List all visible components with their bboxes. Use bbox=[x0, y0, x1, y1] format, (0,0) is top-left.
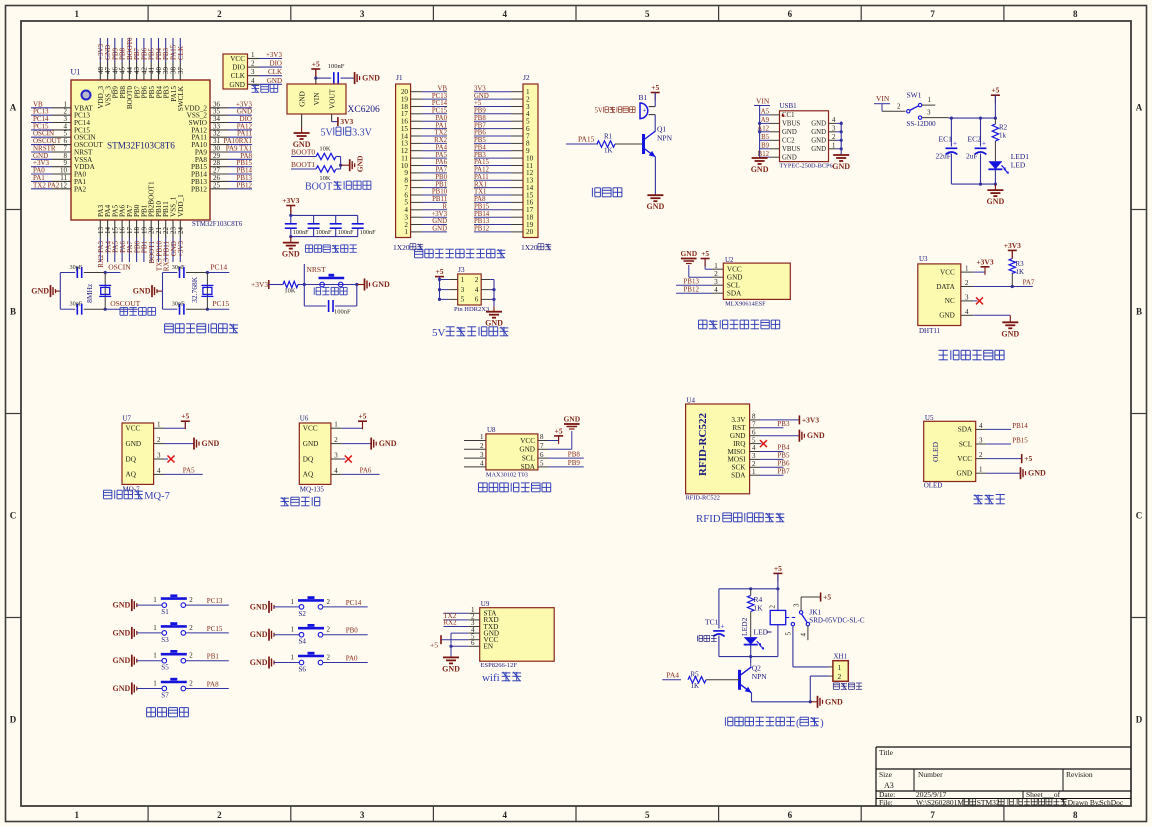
svg-text:LED2: LED2 bbox=[740, 617, 749, 636]
svg-text:100nF: 100nF bbox=[328, 63, 345, 70]
svg-text:1: 1 bbox=[153, 652, 157, 660]
svg-text:+3V3: +3V3 bbox=[266, 51, 283, 59]
svg-text:30pF: 30pF bbox=[172, 301, 185, 308]
svg-text:32.768K: 32.768K bbox=[190, 276, 199, 303]
svg-text:2: 2 bbox=[714, 270, 718, 278]
svg-text:2: 2 bbox=[327, 598, 331, 606]
svg-text:+: + bbox=[643, 107, 647, 115]
svg-text:Revision: Revision bbox=[1066, 770, 1093, 779]
svg-text:+5: +5 bbox=[701, 249, 709, 258]
svg-text:8MHz: 8MHz bbox=[85, 283, 94, 303]
svg-text:DQ: DQ bbox=[126, 455, 137, 463]
svg-text:GND: GND bbox=[811, 146, 826, 153]
svg-text:PB14: PB14 bbox=[1012, 422, 1028, 430]
svg-text:3V3: 3V3 bbox=[474, 85, 486, 92]
svg-text:PB1: PB1 bbox=[435, 181, 447, 188]
svg-text:PB8: PB8 bbox=[474, 115, 486, 122]
svg-text:STM32: STM32 bbox=[977, 798, 1000, 807]
svg-text:NRST: NRST bbox=[307, 265, 327, 274]
svg-text:B12: B12 bbox=[758, 151, 770, 158]
svg-text:RX2: RX2 bbox=[443, 619, 457, 627]
svg-text:GND: GND bbox=[647, 202, 665, 211]
svg-text:PB6: PB6 bbox=[777, 460, 790, 468]
svg-text:U5: U5 bbox=[925, 414, 934, 422]
svg-text:SRD-05VDC-SL-C: SRD-05VDC-SL-C bbox=[809, 617, 865, 625]
svg-text:100nF: 100nF bbox=[316, 229, 332, 236]
svg-text:EC2: EC2 bbox=[968, 135, 982, 144]
svg-text:SDA: SDA bbox=[521, 463, 536, 471]
svg-text:1: 1 bbox=[461, 276, 465, 284]
svg-text:2: 2 bbox=[838, 672, 842, 681]
svg-text:2: 2 bbox=[217, 9, 222, 19]
svg-text:25: 25 bbox=[213, 181, 221, 189]
svg-text:BOOT0: BOOT0 bbox=[291, 148, 315, 157]
svg-text:VBUS: VBUS bbox=[782, 146, 800, 153]
svg-text:GND: GND bbox=[811, 121, 826, 128]
svg-text:VCC: VCC bbox=[727, 266, 742, 274]
svg-text:RFID: RFID bbox=[696, 513, 721, 525]
svg-text:2: 2 bbox=[769, 605, 777, 609]
svg-text:MLX90614ESF: MLX90614ESF bbox=[725, 301, 766, 308]
svg-text:PB12: PB12 bbox=[236, 181, 252, 189]
svg-text:8: 8 bbox=[1073, 810, 1078, 820]
svg-text:GND: GND bbox=[519, 446, 535, 454]
svg-text:W:\S2602801M: W:\S2602801M bbox=[916, 798, 964, 807]
svg-text:ESP8266-12F: ESP8266-12F bbox=[481, 662, 518, 669]
svg-text:30pF: 30pF bbox=[70, 301, 83, 308]
svg-text:5: 5 bbox=[785, 632, 793, 636]
svg-text:U8: U8 bbox=[487, 426, 496, 434]
svg-text:U6: U6 bbox=[300, 415, 309, 423]
svg-text:D: D bbox=[1136, 715, 1143, 725]
svg-text:TYPEC-250D-BCP6: TYPEC-250D-BCP6 bbox=[780, 163, 833, 170]
svg-text:3: 3 bbox=[714, 278, 718, 286]
svg-text:PC15: PC15 bbox=[207, 625, 223, 633]
svg-text:2: 2 bbox=[189, 652, 193, 660]
svg-text:1: 1 bbox=[157, 421, 161, 429]
svg-text:B: B bbox=[10, 307, 16, 317]
svg-text:GND: GND bbox=[250, 630, 268, 639]
svg-text:+5: +5 bbox=[430, 641, 438, 650]
svg-text:3: 3 bbox=[979, 437, 983, 445]
svg-text:1: 1 bbox=[153, 624, 157, 632]
svg-text:PB11: PB11 bbox=[432, 196, 447, 203]
svg-text:4: 4 bbox=[251, 77, 255, 85]
svg-text:PB4: PB4 bbox=[474, 144, 486, 151]
svg-text:BOOT1: BOOT1 bbox=[291, 160, 315, 169]
svg-text:OSCOUT: OSCOUT bbox=[110, 299, 140, 308]
svg-text:4: 4 bbox=[832, 117, 836, 124]
svg-text:PB12: PB12 bbox=[683, 286, 699, 294]
svg-text:CLK: CLK bbox=[231, 72, 246, 80]
svg-text:IRQ: IRQ bbox=[733, 440, 746, 448]
svg-text:GND: GND bbox=[229, 81, 245, 89]
svg-text:TC1: TC1 bbox=[705, 618, 719, 627]
svg-text:5V: 5V bbox=[432, 327, 446, 339]
svg-text:2: 2 bbox=[251, 60, 255, 68]
svg-text:1X20: 1X20 bbox=[521, 243, 538, 252]
svg-text:DATA: DATA bbox=[936, 283, 955, 291]
svg-text:MQ-7: MQ-7 bbox=[144, 491, 170, 502]
svg-text:U7: U7 bbox=[123, 415, 132, 423]
svg-text:3: 3 bbox=[157, 452, 161, 460]
svg-text:100nF: 100nF bbox=[334, 309, 351, 316]
svg-text:VBUS: VBUS bbox=[782, 121, 800, 128]
svg-text:2uF: 2uF bbox=[966, 152, 978, 161]
svg-text:STM32F103C8T6: STM32F103C8T6 bbox=[192, 221, 243, 228]
svg-text:CC1: CC1 bbox=[782, 112, 794, 119]
svg-text:1X20: 1X20 bbox=[393, 243, 410, 252]
svg-text:GND: GND bbox=[474, 93, 489, 100]
svg-text:Q1: Q1 bbox=[657, 125, 666, 134]
svg-text:GND: GND bbox=[987, 197, 1005, 206]
svg-text:8: 8 bbox=[540, 433, 544, 441]
svg-text:Drawn By:: Drawn By: bbox=[1068, 798, 1101, 807]
svg-text:PA6: PA6 bbox=[436, 159, 448, 166]
svg-text:VB: VB bbox=[438, 85, 448, 92]
svg-text:GND: GND bbox=[563, 415, 580, 424]
svg-text:MAX30102 T03: MAX30102 T03 bbox=[486, 472, 528, 479]
svg-text:R2: R2 bbox=[999, 124, 1008, 132]
svg-text:4: 4 bbox=[334, 467, 338, 475]
svg-text:DHT11: DHT11 bbox=[919, 327, 941, 335]
svg-text:B5: B5 bbox=[761, 134, 770, 141]
svg-text:GND: GND bbox=[939, 312, 955, 320]
svg-text:100nF: 100nF bbox=[338, 229, 354, 236]
svg-text:J2: J2 bbox=[523, 73, 530, 82]
svg-text:PB14: PB14 bbox=[474, 211, 490, 218]
svg-text:3V3: 3V3 bbox=[340, 117, 353, 126]
svg-text:1: 1 bbox=[334, 421, 338, 429]
svg-text:AQ: AQ bbox=[126, 471, 137, 479]
svg-text:PB4: PB4 bbox=[777, 444, 790, 452]
svg-text:OLED: OLED bbox=[931, 441, 940, 462]
svg-text:PA7: PA7 bbox=[1023, 279, 1035, 287]
svg-text:SCL: SCL bbox=[959, 440, 972, 448]
svg-text:1K: 1K bbox=[604, 147, 613, 155]
svg-text:+5: +5 bbox=[991, 86, 999, 95]
svg-text:GND: GND bbox=[356, 155, 365, 172]
svg-text:1: 1 bbox=[832, 143, 835, 150]
svg-text:RFID-RC522: RFID-RC522 bbox=[686, 495, 720, 502]
svg-text:2: 2 bbox=[752, 460, 756, 468]
svg-text:1: 1 bbox=[291, 598, 295, 606]
svg-text:GND: GND bbox=[202, 439, 220, 448]
svg-text:GND: GND bbox=[811, 129, 826, 136]
svg-text:5: 5 bbox=[645, 9, 650, 19]
svg-text:2: 2 bbox=[965, 279, 969, 287]
svg-text:+3V3: +3V3 bbox=[177, 241, 185, 258]
svg-text:PC13: PC13 bbox=[207, 597, 223, 605]
svg-text:EN: EN bbox=[484, 643, 494, 651]
svg-text:USB1: USB1 bbox=[780, 102, 798, 110]
svg-text:TX1: TX1 bbox=[474, 189, 486, 196]
svg-text:EC1: EC1 bbox=[939, 135, 953, 144]
svg-text:A9: A9 bbox=[761, 117, 770, 124]
svg-text:10K: 10K bbox=[284, 288, 296, 295]
svg-text:Title: Title bbox=[879, 748, 894, 757]
svg-text:S5: S5 bbox=[161, 664, 169, 672]
svg-text:PA15: PA15 bbox=[474, 159, 489, 166]
svg-text:File:: File: bbox=[879, 798, 893, 807]
svg-text:PB10: PB10 bbox=[432, 189, 448, 196]
svg-text:6: 6 bbox=[475, 296, 479, 304]
svg-text:GND: GND bbox=[113, 684, 131, 693]
svg-text:2: 2 bbox=[189, 624, 193, 632]
svg-text:PC15: PC15 bbox=[212, 299, 229, 308]
svg-text:7: 7 bbox=[930, 9, 935, 19]
svg-text:8: 8 bbox=[752, 413, 756, 421]
svg-text:30pF: 30pF bbox=[172, 264, 185, 271]
svg-text:.SchDoc: .SchDoc bbox=[1098, 798, 1124, 807]
svg-text:PA0: PA0 bbox=[346, 655, 358, 663]
svg-text:+3V3: +3V3 bbox=[976, 257, 993, 266]
svg-text:GND: GND bbox=[751, 165, 769, 174]
svg-text:GND: GND bbox=[250, 602, 268, 611]
svg-text:4: 4 bbox=[475, 286, 479, 294]
svg-text:3: 3 bbox=[251, 68, 255, 76]
svg-text:+5: +5 bbox=[474, 100, 482, 107]
svg-text:PA5: PA5 bbox=[183, 466, 195, 474]
svg-text:GND: GND bbox=[362, 74, 380, 83]
svg-text:1: 1 bbox=[291, 626, 295, 634]
svg-text:7: 7 bbox=[752, 421, 756, 429]
svg-text:B9: B9 bbox=[761, 143, 770, 150]
svg-text:PA8: PA8 bbox=[474, 196, 486, 203]
svg-text:OLED: OLED bbox=[924, 482, 943, 490]
svg-text:6: 6 bbox=[788, 9, 793, 19]
svg-text:VIN: VIN bbox=[876, 94, 890, 103]
svg-text:4: 4 bbox=[800, 633, 808, 637]
svg-text:PB1: PB1 bbox=[207, 653, 220, 661]
svg-text:PB15: PB15 bbox=[474, 204, 490, 211]
svg-text:PB8: PB8 bbox=[568, 450, 581, 458]
svg-text:D: D bbox=[10, 715, 17, 725]
svg-text:3.3V: 3.3V bbox=[731, 416, 746, 424]
svg-text:TX2 PA2: TX2 PA2 bbox=[33, 181, 60, 189]
svg-text:GND: GND bbox=[680, 249, 697, 258]
svg-text:2: 2 bbox=[832, 134, 836, 141]
svg-text:GND: GND bbox=[250, 658, 268, 667]
svg-text:1: 1 bbox=[153, 680, 157, 688]
svg-text:10K: 10K bbox=[319, 146, 331, 153]
svg-text:VCC: VCC bbox=[520, 437, 535, 445]
svg-text:B1: B1 bbox=[639, 93, 648, 102]
svg-text:GND: GND bbox=[31, 287, 49, 296]
svg-text:6: 6 bbox=[540, 451, 544, 459]
svg-text:1: 1 bbox=[752, 468, 756, 476]
svg-text:GND: GND bbox=[303, 440, 319, 448]
svg-text:2: 2 bbox=[327, 654, 331, 662]
svg-text:R3: R3 bbox=[1016, 260, 1025, 268]
svg-text:3: 3 bbox=[927, 109, 931, 117]
svg-text:GND: GND bbox=[379, 439, 397, 448]
svg-text:+3V3: +3V3 bbox=[802, 415, 819, 424]
svg-text:NPN: NPN bbox=[752, 672, 768, 681]
svg-text:4: 4 bbox=[979, 422, 983, 430]
svg-text:S3: S3 bbox=[161, 636, 169, 644]
svg-text:+5: +5 bbox=[1024, 454, 1032, 463]
svg-text:GND: GND bbox=[442, 664, 460, 673]
svg-text:SCL: SCL bbox=[522, 454, 535, 462]
svg-text:1: 1 bbox=[979, 466, 983, 474]
svg-text:2: 2 bbox=[334, 436, 338, 444]
svg-text:30pF: 30pF bbox=[70, 264, 83, 271]
svg-text:RX2: RX2 bbox=[434, 137, 447, 144]
svg-text:+5: +5 bbox=[651, 83, 659, 92]
svg-text:PA11: PA11 bbox=[474, 174, 489, 181]
svg-text:1K: 1K bbox=[691, 682, 700, 690]
svg-text:+5: +5 bbox=[774, 564, 782, 573]
svg-text:SWCLK: SWCLK bbox=[177, 85, 185, 111]
svg-text:BOOT: BOOT bbox=[305, 182, 332, 193]
svg-text:5: 5 bbox=[540, 460, 544, 468]
svg-text:SCL: SCL bbox=[727, 282, 740, 290]
svg-text:6: 6 bbox=[471, 639, 475, 647]
svg-text:wifi: wifi bbox=[482, 672, 500, 684]
svg-text:4: 4 bbox=[714, 286, 718, 294]
svg-text:GND: GND bbox=[113, 601, 131, 610]
svg-text:): ) bbox=[820, 718, 824, 729]
svg-text:MOSI: MOSI bbox=[728, 456, 747, 464]
svg-text:PA2: PA2 bbox=[74, 185, 87, 193]
svg-text:SS-12D00: SS-12D00 bbox=[907, 120, 937, 128]
svg-text:+3V3: +3V3 bbox=[1004, 241, 1021, 250]
svg-text:PC14: PC14 bbox=[210, 263, 227, 272]
svg-text:GND: GND bbox=[267, 77, 282, 85]
svg-text:GND: GND bbox=[782, 129, 797, 136]
svg-text:LED: LED bbox=[754, 628, 769, 637]
svg-text:2: 2 bbox=[157, 436, 161, 444]
svg-text:4: 4 bbox=[502, 810, 507, 820]
svg-text:.: . bbox=[1014, 798, 1016, 807]
svg-text:GND: GND bbox=[1001, 329, 1019, 338]
svg-text:2: 2 bbox=[217, 810, 222, 820]
svg-text:A: A bbox=[10, 103, 17, 113]
svg-text:DQ: DQ bbox=[303, 455, 314, 463]
svg-text:PB15: PB15 bbox=[1012, 437, 1028, 445]
svg-text:PA4: PA4 bbox=[666, 670, 679, 679]
svg-text:3: 3 bbox=[965, 293, 969, 301]
svg-text:+3V3: +3V3 bbox=[282, 196, 299, 205]
svg-text:3.3V: 3.3V bbox=[352, 128, 373, 139]
svg-text:2: 2 bbox=[189, 680, 193, 688]
svg-text:1K: 1K bbox=[754, 604, 764, 613]
svg-text:+5: +5 bbox=[435, 267, 443, 276]
svg-text:6: 6 bbox=[788, 810, 793, 820]
svg-text:3: 3 bbox=[360, 9, 365, 19]
svg-text:1: 1 bbox=[75, 810, 80, 820]
svg-text:PB9: PB9 bbox=[474, 108, 486, 115]
svg-text:GND: GND bbox=[727, 274, 743, 282]
svg-text:1: 1 bbox=[480, 433, 484, 441]
svg-text:5V: 5V bbox=[321, 128, 334, 139]
svg-text:GND: GND bbox=[113, 656, 131, 665]
svg-text:3: 3 bbox=[480, 451, 484, 459]
svg-text:3: 3 bbox=[752, 452, 756, 460]
svg-text:GND: GND bbox=[282, 250, 300, 259]
svg-text:2: 2 bbox=[897, 103, 901, 111]
svg-text:OSCIN: OSCIN bbox=[108, 263, 131, 272]
svg-text:PB13: PB13 bbox=[683, 278, 699, 286]
svg-text:PB0: PB0 bbox=[346, 627, 359, 635]
svg-text:GND: GND bbox=[432, 226, 447, 233]
svg-text:3: 3 bbox=[832, 126, 836, 133]
svg-text:37: 37 bbox=[177, 67, 185, 75]
svg-text:A3: A3 bbox=[884, 781, 894, 790]
svg-text:3: 3 bbox=[793, 603, 801, 607]
svg-text:Size: Size bbox=[879, 770, 893, 779]
svg-text:GND: GND bbox=[1028, 469, 1046, 478]
svg-text:1: 1 bbox=[965, 265, 969, 273]
svg-text:+3V3: +3V3 bbox=[431, 211, 447, 218]
svg-text:CLK: CLK bbox=[177, 46, 185, 60]
svg-text:Pin HDR2X3: Pin HDR2X3 bbox=[454, 306, 489, 313]
svg-text:PA12: PA12 bbox=[474, 167, 489, 174]
svg-text:+: + bbox=[982, 140, 986, 148]
svg-text:J3: J3 bbox=[458, 265, 465, 274]
svg-text:PB6: PB6 bbox=[474, 130, 486, 137]
svg-text:+: + bbox=[721, 623, 725, 631]
svg-text:100nF: 100nF bbox=[360, 229, 376, 236]
svg-text:SW1: SW1 bbox=[907, 91, 922, 100]
svg-text:5: 5 bbox=[645, 810, 650, 820]
svg-text:VCC: VCC bbox=[230, 55, 245, 63]
svg-text:NPN: NPN bbox=[657, 134, 673, 143]
svg-text:XH1: XH1 bbox=[834, 653, 848, 661]
svg-text:24: 24 bbox=[177, 227, 185, 235]
svg-text:GND: GND bbox=[832, 162, 850, 171]
svg-text:2: 2 bbox=[480, 442, 484, 450]
svg-text:VCC: VCC bbox=[126, 425, 141, 433]
svg-text:GND: GND bbox=[299, 91, 307, 107]
svg-text:B: B bbox=[1136, 307, 1142, 317]
svg-text:PA1: PA1 bbox=[436, 122, 447, 129]
svg-text:R1: R1 bbox=[604, 133, 613, 141]
svg-text:7: 7 bbox=[540, 442, 544, 450]
svg-text:4: 4 bbox=[502, 9, 507, 19]
svg-text:PA7: PA7 bbox=[436, 167, 448, 174]
svg-text:1: 1 bbox=[251, 51, 255, 59]
svg-text:8: 8 bbox=[1073, 9, 1078, 19]
svg-text:1K: 1K bbox=[1016, 268, 1025, 276]
svg-text:5V: 5V bbox=[595, 108, 603, 115]
svg-text:+5: +5 bbox=[823, 593, 831, 602]
svg-text:PB7: PB7 bbox=[777, 467, 790, 475]
svg-text:2: 2 bbox=[979, 451, 983, 459]
svg-text:PB13: PB13 bbox=[474, 218, 490, 225]
svg-text:1: 1 bbox=[838, 663, 842, 672]
svg-text:VCC: VCC bbox=[303, 425, 318, 433]
svg-text:1: 1 bbox=[928, 96, 932, 104]
svg-text:S2: S2 bbox=[299, 610, 307, 618]
svg-text:A5: A5 bbox=[761, 109, 770, 116]
svg-text:A: A bbox=[1136, 103, 1143, 113]
svg-text:C: C bbox=[1136, 511, 1143, 521]
svg-text:2: 2 bbox=[327, 626, 331, 634]
svg-text:+: + bbox=[953, 140, 957, 148]
svg-text:MISO: MISO bbox=[728, 448, 746, 456]
svg-text:CLK: CLK bbox=[268, 68, 282, 76]
svg-text:Number: Number bbox=[918, 770, 943, 779]
svg-text:(: ( bbox=[796, 718, 800, 729]
svg-text:SDA: SDA bbox=[731, 472, 746, 480]
svg-text:RST: RST bbox=[732, 424, 746, 432]
svg-text:RX1: RX1 bbox=[474, 181, 487, 188]
svg-text:PB3: PB3 bbox=[474, 152, 486, 159]
svg-text:2: 2 bbox=[475, 276, 479, 284]
svg-text:100nF: 100nF bbox=[293, 229, 309, 236]
